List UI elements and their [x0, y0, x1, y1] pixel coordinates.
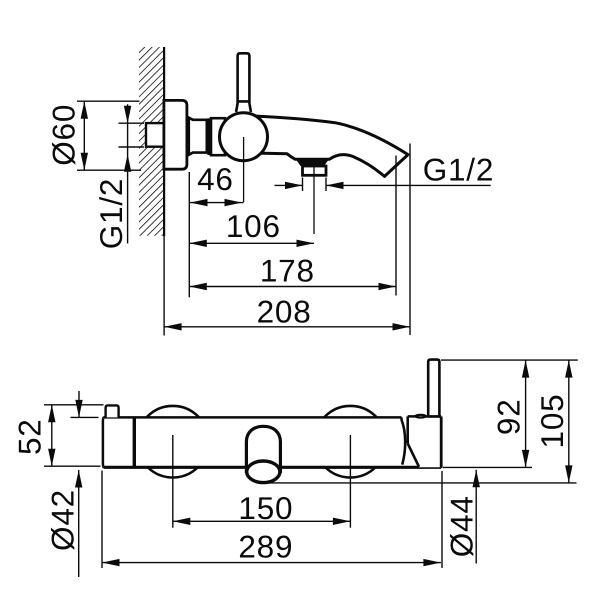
dim 52 dimension line: [51, 405, 53, 466]
arrow 178 left: [189, 283, 207, 290]
dim 208 dimension line: [164, 326, 410, 328]
dim Ø42 tick: [71, 416, 99, 418]
svg-text:Ø60: Ø60: [46, 104, 82, 166]
handle stem front view: [428, 360, 439, 417]
svg-text:289: 289: [238, 529, 293, 565]
extension line spout underside tip: [395, 156, 397, 296]
right mounting circle: [315, 406, 387, 478]
end cap slant edge: [408, 444, 419, 467]
outlet centerline: [313, 167, 315, 234]
end cap top edge: [408, 415, 442, 418]
body left cap edge: [102, 417, 105, 467]
top tab on left cap: [106, 405, 119, 417]
shower outlet G1/2 fitting: [303, 166, 327, 175]
lever handle stem: [238, 53, 250, 101]
svg-text:92: 92: [491, 398, 527, 435]
left circle centerline extension: [172, 435, 174, 528]
lever handle flare: [236, 101, 251, 112]
arrow 289 left: [102, 559, 120, 566]
connector neck section 1: [189, 118, 207, 155]
svg-text:Ø44: Ø44: [444, 495, 480, 557]
dim 105 bottom extension line: [266, 482, 577, 484]
dim 52 bottom extension line: [44, 465, 101, 467]
wall hatching: [139, 47, 164, 236]
spout connection capsule: [246, 426, 280, 473]
extension line flange face: [188, 172, 190, 297]
arrow 150 left: [173, 518, 191, 525]
svg-text:52: 52: [12, 418, 48, 455]
end cap right edge: [440, 416, 443, 468]
dim G1/2 leader line vertical: [127, 104, 129, 243]
shower outlet collar (filled): [295, 158, 330, 166]
dim 52 top extension line: [44, 404, 104, 406]
dim 289 right extension line: [441, 471, 443, 568]
dim 289 dimension line: [102, 562, 441, 564]
dim 92 bottom extension line: [443, 466, 532, 468]
left mounting circle: [137, 406, 209, 478]
dim G1/2 top tick: [119, 122, 145, 124]
dim 106 dimension line: [189, 242, 314, 244]
arrow 208 right: [393, 323, 411, 330]
arrow 52 up: [48, 405, 55, 423]
dim 150 dimension line: [173, 520, 351, 522]
arrow 208 left: [164, 323, 182, 330]
arrow Ø42 up: [75, 470, 82, 488]
svg-text:106: 106: [226, 208, 281, 244]
G1/2 wall nipple: [146, 123, 164, 147]
dim 46 dimension line: [190, 202, 244, 204]
dim Ø60 dimension line: [83, 101, 85, 170]
arrow 92 up: [522, 360, 529, 378]
G1/2 outlet leader left segment: [275, 184, 303, 186]
capsule bottom ellipse: [247, 461, 280, 483]
dim Ø60 top extension line: [77, 100, 140, 102]
arrow 52 down: [48, 449, 55, 467]
dim Ø60 bottom extension line: [77, 169, 141, 171]
wall flange (escutcheon): [164, 100, 187, 169]
svg-text:105: 105: [534, 394, 570, 449]
body right top corner: [400, 417, 403, 420]
outlet fitting right extension: [325, 178, 327, 192]
svg-text:46: 46: [197, 161, 234, 197]
end cap left edge: [406, 416, 409, 443]
wall face line: [163, 47, 165, 236]
arrow 289 right: [423, 559, 441, 566]
arrow 178 right: [379, 283, 397, 290]
svg-text:150: 150: [238, 490, 293, 526]
connector joint ring: [207, 118, 211, 155]
svg-text:Ø42: Ø42: [45, 489, 81, 551]
arrow Ø60 up: [81, 101, 88, 119]
svg-text:G1/2: G1/2: [93, 178, 129, 250]
outlet fitting left extension: [302, 178, 304, 192]
mixer body fill: [103, 417, 402, 467]
right end cap fill: [408, 416, 442, 467]
arrow 46 left: [190, 199, 208, 206]
arrow 92 down: [522, 450, 529, 468]
arrow G1/2 down: [124, 106, 131, 124]
arrow outlet leader left-pointing: [326, 182, 344, 189]
connector neck section 2: [211, 118, 225, 155]
body bottom edge: [104, 466, 441, 469]
arrow 105 up: [565, 360, 572, 378]
arrow Ø60 down: [81, 153, 88, 171]
svg-text:178: 178: [260, 253, 315, 289]
G1/2 outlet leader right segment: [326, 184, 491, 186]
svg-text:G1/2: G1/2: [423, 151, 495, 187]
arrow 106 right: [297, 240, 315, 247]
arrow 46 right: [225, 199, 243, 206]
dim 105 dimension line: [568, 360, 570, 483]
dim Ø42 upper leader: [78, 391, 80, 417]
spout: [245, 116, 408, 177]
arrow outlet leader right-pointing: [285, 182, 303, 189]
dim Ø42 lower leader: [78, 470, 80, 577]
valve body circle: [220, 113, 268, 161]
dim G1/2 bottom tick: [119, 146, 145, 148]
valve centerline: [243, 137, 245, 202]
body top edge: [104, 416, 402, 419]
left cap joint line: [133, 418, 136, 467]
extension line from wall face (left end of dim 208): [163, 236, 165, 336]
arrow G1/2 up: [124, 154, 131, 172]
pivot lens on cap top: [416, 415, 426, 418]
right cone transition: [402, 420, 406, 465]
arrow Ø44 up: [473, 470, 480, 488]
stem top extension line: [441, 359, 578, 361]
dim Ø44 leader line: [475, 470, 477, 564]
arrow 150 right: [333, 518, 351, 525]
dim 178 dimension line: [189, 286, 396, 288]
dim 289 left extension line: [101, 471, 103, 569]
extension line spout end: [409, 144, 411, 336]
right circle centerline extension: [349, 435, 351, 528]
arrow 105 down: [565, 465, 572, 483]
arrow 106 left: [189, 240, 207, 247]
arrow Ø42 down: [75, 400, 82, 418]
dim 92 dimension line: [525, 360, 527, 467]
svg-text:208: 208: [257, 293, 312, 329]
